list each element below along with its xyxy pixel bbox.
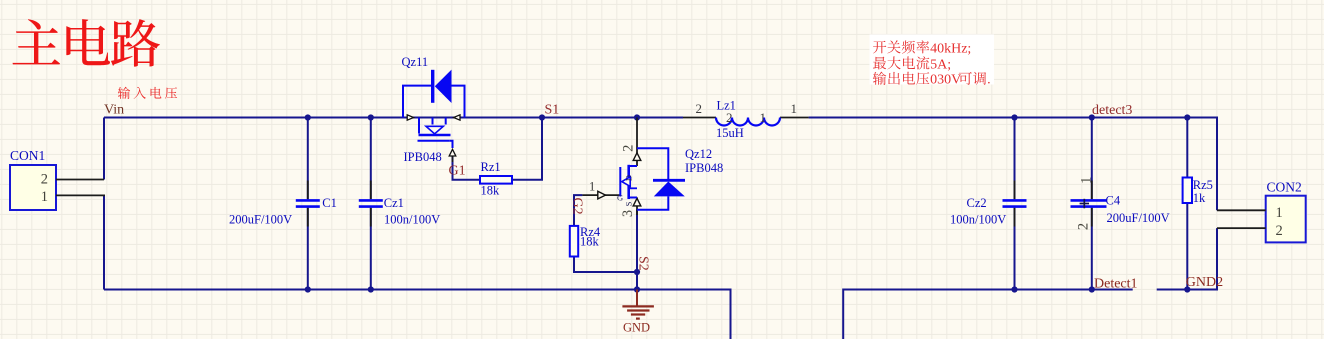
wire Cz2 vertical <box>1014 118 1016 200</box>
resistor Rz4 18k <box>570 226 578 257</box>
svg-text:G: G <box>617 193 623 203</box>
svg-text:100n/100V: 100n/100V <box>384 213 440 227</box>
wire Rz4 bottom to S2 <box>574 257 637 273</box>
wire C1 vertical <box>307 118 309 200</box>
annotation box <box>870 35 995 85</box>
svg-text:Rz1: Rz1 <box>481 160 501 174</box>
wire top rail right <box>809 118 1217 211</box>
svg-text:D: D <box>624 175 634 181</box>
svg-text:Lz1: Lz1 <box>717 99 736 113</box>
svg-text:Rz5: Rz5 <box>1193 178 1213 192</box>
transistor Qz11 IPB048 <box>403 70 465 162</box>
connector CON1 <box>10 165 56 210</box>
svg-text:G1: G1 <box>449 164 466 179</box>
title 主电路 <box>13 19 160 67</box>
annotation line2 最大电流5A; <box>873 56 929 69</box>
wire C4 vertical <box>1091 118 1093 200</box>
transistor Qz12 IPB048 <box>582 118 685 218</box>
svg-text:200uF/100V: 200uF/100V <box>1107 211 1170 225</box>
red note 输入电压 <box>118 87 177 99</box>
svg-text:IPB048: IPB048 <box>685 161 723 175</box>
svg-text:3: 3 <box>620 210 636 217</box>
svg-text:1k: 1k <box>1193 191 1206 205</box>
capacitor C1 200uF/100V <box>307 181 309 200</box>
ground GND <box>622 290 654 335</box>
svg-text:Vin: Vin <box>104 103 124 118</box>
svg-text:Cz2: Cz2 <box>967 196 987 210</box>
connector CON2 <box>1266 196 1306 243</box>
resistor Rz5 1k <box>1183 178 1192 204</box>
svg-text:2: 2 <box>1276 223 1283 239</box>
svg-text:2: 2 <box>41 172 48 188</box>
wire CON1 pin1 down to bottom rail <box>103 195 105 289</box>
svg-text:G2: G2 <box>570 198 585 215</box>
svg-text:GND: GND <box>623 320 650 334</box>
capacitor Cz1 100n/100V <box>370 181 372 200</box>
svg-text:Cz1: Cz1 <box>384 196 404 210</box>
svg-text:C1: C1 <box>322 196 337 210</box>
svg-text:100n/100V: 100n/100V <box>950 213 1006 227</box>
svg-text:S2: S2 <box>636 256 651 271</box>
wire G2 gate to Rz4 <box>574 195 582 226</box>
svg-text:Qz11: Qz11 <box>402 55 429 69</box>
svg-text:5A;: 5A; <box>930 57 951 72</box>
svg-text:CON2: CON2 <box>1267 179 1302 194</box>
svg-text:1: 1 <box>791 101 798 116</box>
resistor Rz1 18k <box>480 176 512 184</box>
annotation line1 开关频率40kHz; <box>873 40 929 53</box>
svg-text:C4: C4 <box>1106 194 1121 208</box>
annotation line3 输出电压030V可调. <box>873 72 930 85</box>
svg-text:1: 1 <box>589 179 595 193</box>
inductor Lz1 15uH <box>683 118 809 126</box>
svg-text:detect3: detect3 <box>1092 103 1132 118</box>
svg-text:1: 1 <box>1276 205 1283 221</box>
svg-text:2: 2 <box>696 101 703 116</box>
CON2 pin 2 <box>1217 227 1266 229</box>
wire GND2 rail <box>1157 228 1217 289</box>
svg-text:IPB048: IPB048 <box>404 150 442 164</box>
capacitor Cz2 100n/100V <box>1014 181 1016 200</box>
svg-text:15uH: 15uH <box>716 126 744 140</box>
svg-text:GND2: GND2 <box>1186 275 1223 290</box>
svg-text:40kHz;: 40kHz; <box>930 41 971 56</box>
svg-text:Detect1: Detect1 <box>1094 276 1138 291</box>
svg-text:2: 2 <box>1076 223 1092 230</box>
svg-text:S1: S1 <box>545 103 560 118</box>
wire bottom GND rail <box>104 290 731 339</box>
svg-text:1: 1 <box>41 189 48 205</box>
wire S1 branch down to Rz1 <box>512 118 542 180</box>
junction dots bottom rails <box>305 286 311 292</box>
CON1 pin 1 <box>56 194 105 196</box>
wire Rz5 vertical top <box>1186 118 1188 178</box>
capacitor C4 200uF/100V (polarized) <box>1071 177 1107 230</box>
svg-text:1: 1 <box>1078 177 1094 184</box>
svg-text:18k: 18k <box>580 234 600 248</box>
svg-text:1: 1 <box>760 110 767 125</box>
wire left vertical from Vin corner to CON1 pin2 <box>103 118 105 180</box>
svg-text:S: S <box>624 201 634 206</box>
CON2 pin 1 <box>1217 209 1266 211</box>
svg-text:200uF/100V: 200uF/100V <box>229 213 292 227</box>
wire top rail left <box>104 117 683 119</box>
wire Detect1 rail <box>843 290 1132 339</box>
svg-text:030V: 030V <box>930 73 961 88</box>
svg-text:2: 2 <box>621 145 637 152</box>
wire Rz1 to gate G1 <box>453 156 481 180</box>
svg-text:18k: 18k <box>481 184 501 198</box>
junction dots top rail <box>305 114 311 120</box>
svg-text:CON1: CON1 <box>10 148 45 163</box>
svg-text:Qz12: Qz12 <box>685 147 712 161</box>
CON1 pin 2 <box>56 179 104 181</box>
svg-text:.: . <box>987 73 991 88</box>
wire Rz5 vertical bottom <box>1186 203 1188 290</box>
wire Qz12 source down to bottom rail <box>636 210 638 290</box>
wire Cz1 vertical <box>370 118 372 200</box>
